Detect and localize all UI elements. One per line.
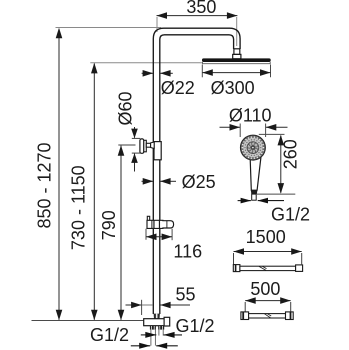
extension line top (850-1270 to arm top) (56, 27, 162, 29)
extension line (730-1150 to head bottom) (90, 62, 202, 64)
slider right notch line (166, 221, 168, 228)
bottom connector left (threaded) (150, 326, 156, 346)
dimension 260 extension top (259, 133, 285, 135)
overhead shower head disc (202, 58, 271, 62)
wall bracket joint block on column (154, 142, 161, 160)
wall bracket flange (Ø60, side view) (140, 139, 144, 153)
svg-text:G1/2: G1/2 (90, 325, 129, 345)
svg-text:730 - 1150: 730 - 1150 (69, 165, 89, 250)
svg-text:Ø300: Ø300 (211, 78, 255, 98)
svg-text:Ø25: Ø25 (182, 172, 216, 192)
svg-text:790: 790 (99, 210, 119, 240)
shower arm inner contour (160, 35, 234, 314)
svg-text:350: 350 (186, 0, 216, 17)
handle end stub (G1/2 thread) (252, 194, 257, 200)
dimension Ø300 (202, 65, 270, 78)
column bottom collet nut (154, 314, 160, 319)
svg-text:55: 55 (175, 285, 195, 305)
leader arrows to right connector (G1/2) (141, 332, 182, 338)
slider holder stub (147, 216, 149, 220)
dimension 790 line (120, 146, 122, 320)
svg-text:116: 116 (173, 241, 202, 261)
dimension 500 (245, 297, 291, 311)
wall baseline (32, 320, 144, 322)
dimension 116 (146, 229, 172, 240)
hand shower face (240, 135, 265, 160)
dimension Ø22 (142, 70, 173, 77)
dimension 260 extension bottom (257, 193, 295, 195)
diverter valve body (144, 319, 164, 326)
svg-text:Ø22: Ø22 (161, 78, 195, 98)
head connector collar lower (233, 54, 241, 58)
dimension Ø25 (142, 178, 177, 185)
svg-text:850 - 1270: 850 - 1270 (35, 142, 55, 228)
Ø60 extension ticks (132, 137, 140, 139)
slider left knob line (151, 220, 153, 228)
head under-rim (203, 62, 271, 64)
dimension 850-1270 line (58, 29, 60, 320)
head connector collar upper (234, 49, 240, 55)
svg-text:G1/2: G1/2 (271, 204, 310, 224)
svg-text:Ø60: Ø60 (115, 91, 135, 125)
extension line (790 to bracket centre) (118, 144, 135, 146)
shower arm outer contour (153, 28, 240, 314)
svg-text:1500: 1500 (246, 227, 286, 247)
svg-text:Ø110: Ø110 (229, 106, 272, 126)
dimension 260 line (278, 135, 285, 194)
wall bracket pin (146, 143, 150, 147)
wall bracket cone (151, 142, 155, 149)
dimension 55 (126, 300, 191, 315)
leader arrows to handle stub (G1/2) (238, 198, 284, 204)
dimension Ø60 arrows (131, 127, 138, 172)
shower hose 500 (241, 312, 293, 320)
svg-text:260: 260 (280, 139, 300, 169)
valve outlet nut right (164, 317, 170, 326)
bottom connector right (threaded) (158, 326, 164, 336)
dimension 1500 (234, 248, 302, 265)
handle tip band (251, 190, 258, 194)
dimension Ø110 (220, 124, 288, 138)
wall bracket cap (144, 140, 147, 152)
dimension 730-1150 line (93, 64, 95, 320)
dimension 350 (157, 12, 238, 46)
svg-text:500: 500 (250, 279, 280, 299)
slider holder body (147, 220, 174, 228)
leader arrows to left connector (wall inlet) (131, 343, 178, 349)
rail through slider (153, 220, 155, 228)
hand shower handle (250, 157, 261, 191)
svg-text:G1/2: G1/2 (175, 316, 214, 336)
shower hose 1500 (233, 265, 302, 272)
